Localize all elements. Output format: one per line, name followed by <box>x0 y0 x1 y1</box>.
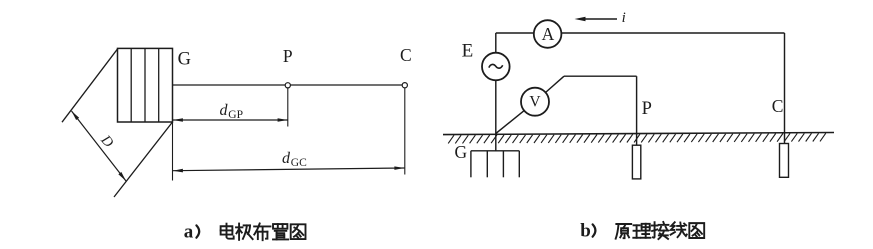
svg-text:V: V <box>529 94 541 111</box>
extension line below C <box>404 88 406 175</box>
ground grid G (plan view rectangle) <box>118 48 173 122</box>
grid electrode G (comb under earth) <box>471 150 519 152</box>
arrowhead d_GC left <box>173 169 183 173</box>
extension line below grid edge <box>172 122 174 181</box>
current direction arrow <box>580 18 617 20</box>
dimension arrow D (double-headed) <box>72 111 127 181</box>
dimension d_GP <box>173 119 288 121</box>
svg-text:G: G <box>455 142 468 162</box>
extension line upper-left (through grid top-left corner) <box>62 48 118 122</box>
arrowhead d_GC right <box>394 166 404 170</box>
node P (potential probe) <box>285 83 290 88</box>
comb tooth 1 <box>470 151 472 178</box>
wire: E top up <box>495 33 497 53</box>
wire: down to electrode P <box>636 76 638 145</box>
svg-text:d: d <box>220 102 229 119</box>
dimension d_GC <box>173 168 405 171</box>
wire: voltmeter V to G point (diagonal) <box>496 111 524 134</box>
svg-text:GC: GC <box>291 157 307 169</box>
caption text 电极布置图 (drawn strokes) <box>221 224 234 239</box>
svg-text:i: i <box>622 10 626 26</box>
wire: corner to ammeter A <box>496 32 534 34</box>
svg-text:P: P <box>283 46 293 66</box>
svg-text:C: C <box>772 96 784 116</box>
svg-text:a: a <box>184 221 194 242</box>
wire: E bottom down to grid G <box>495 80 497 151</box>
wire: down to electrode C <box>784 33 786 144</box>
wire: voltmeter V up-right diagonal <box>546 76 565 92</box>
voltmeter V circle <box>521 88 549 116</box>
comb tooth 3 <box>502 151 504 178</box>
wire: survey line from grid to C <box>173 84 406 86</box>
svg-text:E: E <box>462 40 474 61</box>
extension line lower-right (through grid bottom-right corner) <box>114 122 173 197</box>
caption b) paren <box>593 224 596 236</box>
AC source E circle <box>482 53 510 81</box>
extension line below P <box>287 88 289 127</box>
svg-text:P: P <box>642 99 652 119</box>
arrowhead d_GP left <box>173 118 183 122</box>
node C (current probe) <box>402 83 407 88</box>
grid internal conductor 3 <box>158 48 160 122</box>
svg-text:C: C <box>400 45 412 65</box>
tilde (AC) symbol <box>489 64 503 68</box>
earth surface line <box>443 133 834 135</box>
comb tooth 4 <box>518 151 520 178</box>
wire: ammeter A to right corner <box>561 32 784 34</box>
caption text 原理接线图 (drawn strokes) <box>616 224 632 239</box>
svg-text:d: d <box>282 150 291 167</box>
grid internal conductor 2 <box>144 48 146 122</box>
svg-text:A: A <box>542 24 555 44</box>
grid internal conductor 1 <box>130 48 132 122</box>
arrowhead D lower <box>118 172 126 181</box>
electrode rod C <box>780 144 789 178</box>
arrowhead i (points left) <box>575 17 586 21</box>
arrowhead D upper <box>72 111 80 120</box>
svg-text:G: G <box>178 50 191 70</box>
caption a) paren <box>196 225 199 237</box>
arrowhead d_GP right <box>278 118 288 122</box>
comb tooth 2 <box>486 151 488 178</box>
earth hatching <box>448 133 826 143</box>
svg-text:GP: GP <box>228 109 243 121</box>
wire: V branch horizontal to P <box>564 75 637 77</box>
ammeter A circle <box>534 20 562 48</box>
svg-text:b: b <box>580 220 591 241</box>
electrode rod P <box>632 145 640 179</box>
